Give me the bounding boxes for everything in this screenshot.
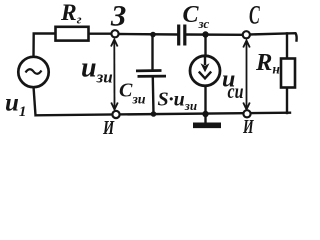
svg-text:И: И — [242, 115, 254, 137]
node I left (source) — [112, 111, 119, 118]
wire current source stem top — [204, 35, 206, 57]
wire current source stem bottom to ground — [204, 86, 206, 123]
wire top-right corner down to R_n — [286, 33, 288, 58]
wire C_zs to node C — [187, 33, 244, 36]
junction dot at current source top — [202, 31, 208, 37]
ground — [193, 123, 221, 129]
capacitor C_zi plates — [136, 71, 166, 77]
svg-text:си: си — [228, 80, 244, 102]
AC source u1 — [18, 57, 48, 87]
resistor R_g — [56, 27, 89, 41]
node I right (source) — [243, 110, 250, 117]
wire node C to top-right rail with overshoot — [250, 33, 297, 40]
svg-text:И: И — [102, 116, 114, 139]
wire resistor to node 3 — [89, 33, 112, 35]
capacitor C_zs plates — [179, 25, 185, 46]
resistor R_n — [281, 59, 295, 88]
wire top-left corner from source to resistor — [34, 34, 56, 58]
junction dot at C_zi top — [150, 32, 156, 38]
wire source bottom to rail — [34, 87, 36, 116]
wire R_n bottom to rail — [286, 88, 288, 114]
wire node 3 to C_zs — [118, 33, 177, 36]
current source S*u_zi — [190, 56, 220, 86]
node C (drain) — [243, 31, 250, 38]
junction dot at C_zi bottom — [151, 111, 157, 117]
junction dot at current source bottom — [202, 111, 208, 117]
node 3 (gate) — [111, 30, 118, 37]
wire bottom rail — [36, 113, 290, 116]
voltage arrow u_zi (double-headed) — [111, 40, 118, 110]
svg-text:З: З — [110, 0, 126, 32]
wire C_zi branch stem — [151, 35, 153, 70]
svg-text:C: C — [249, 1, 260, 30]
voltage arrow u_si (double-headed) — [243, 41, 250, 110]
